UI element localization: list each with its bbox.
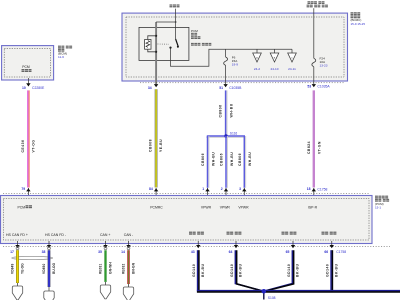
wire CB806 WH-BU branch 2 <box>226 136 228 188</box>
ground wire GD140 pin 64 <box>235 250 263 291</box>
svg-text:43: 43 <box>191 250 195 254</box>
relay mechanical link (dotted) <box>158 43 170 45</box>
svg-text:GD140: GD140 <box>326 264 330 277</box>
svg-text:3: 3 <box>239 187 241 191</box>
wire from hot feed into box to relay switch <box>175 9 177 39</box>
splice S116 node <box>224 134 227 137</box>
wire VD850 BU-OG (blue) <box>48 250 51 287</box>
svg-text:CB806: CB806 <box>220 153 224 166</box>
svg-text:VT-GN: VT-GN <box>318 141 322 154</box>
wire CE436 VT-OG (pink) <box>27 90 29 187</box>
ground wire GD140 pin 66 <box>330 250 332 291</box>
PCM entry pin 79 <box>27 188 29 198</box>
svg-text:S108: S108 <box>268 296 276 300</box>
wire from starter-run feed down to fuse F24 <box>313 8 315 58</box>
svg-text:WH-BU: WH-BU <box>248 152 252 166</box>
connector dash row below BJB <box>140 82 344 84</box>
svg-text:PCMRC: PCMRC <box>150 205 163 209</box>
hot-at-all-times power label <box>170 4 173 7</box>
wire CB008 YE-BU (dark yellow) <box>155 89 158 187</box>
connector terminal of VD849 <box>17 283 19 286</box>
off-page connector 24-2 <box>256 49 258 53</box>
svg-text:YE-OG: YE-OG <box>21 263 25 274</box>
PCM module box <box>1 196 373 244</box>
svg-text:24-2: 24-2 <box>254 67 260 71</box>
svg-text:13-23: 13-23 <box>320 63 328 67</box>
wire CB824 VT-GN (violet) <box>313 90 315 187</box>
svg-text:HS CAN FD +: HS CAN FD + <box>6 233 28 237</box>
splice S108 node <box>262 289 267 294</box>
twisted pair ellipse <box>12 256 53 259</box>
starter-run power label <box>308 1 311 4</box>
BCM module box (PCM relay inside BCM) <box>2 46 54 80</box>
svg-text:C2280E: C2280E <box>32 86 45 90</box>
svg-text:YE-BU: YE-BU <box>159 139 163 152</box>
relay switch pivot <box>169 47 171 49</box>
svg-text:17: 17 <box>10 250 14 254</box>
svg-text:24-11: 24-11 <box>288 67 296 71</box>
svg-text:11-6: 11-6 <box>58 55 64 59</box>
off-page connector 24-10 <box>274 49 276 53</box>
PCM entry pin 2 <box>225 188 227 198</box>
wire RE031 GN-WH (green) <box>104 250 107 282</box>
PCM bottom exit pin 65 <box>292 241 294 245</box>
svg-text:C1758: C1758 <box>336 250 346 254</box>
fuse F24 <box>312 58 316 66</box>
ground wire GD140 pin 65 <box>264 250 293 291</box>
svg-text:35: 35 <box>98 250 102 254</box>
ground wire GD140 pin 43 <box>197 250 199 291</box>
BJB exit pin 34 <box>154 84 158 87</box>
svg-text:CB806: CB806 <box>201 153 205 166</box>
BJB exit pin 53 <box>312 84 316 87</box>
PCM power relay box <box>139 27 189 60</box>
svg-text:14: 14 <box>121 250 125 254</box>
svg-text:CB806: CB806 <box>219 104 223 117</box>
svg-text:10: 10 <box>22 86 26 90</box>
relay coil <box>155 35 157 37</box>
BJB inner dashed border <box>126 17 344 77</box>
svg-text:RE032: RE032 <box>121 264 125 274</box>
svg-text:GD140: GD140 <box>287 264 291 277</box>
PCM bottom exit pin 17 <box>17 241 19 245</box>
svg-text:CAN +: CAN + <box>100 233 110 237</box>
svg-text:64: 64 <box>229 250 233 254</box>
connector terminal of RE031 <box>105 282 107 285</box>
relay switch blade <box>176 39 179 46</box>
svg-text:C1035B: C1035B <box>229 86 242 90</box>
svg-text:38: 38 <box>42 250 46 254</box>
svg-text:C1758: C1758 <box>317 187 327 191</box>
svg-text:VD849: VD849 <box>10 264 14 274</box>
svg-text:BU-OG: BU-OG <box>52 262 56 274</box>
svg-text:53: 53 <box>307 85 311 89</box>
svg-text:34: 34 <box>148 86 152 90</box>
svg-text:WH-BU: WH-BU <box>229 103 233 117</box>
PCM bottom exit pin 64 <box>235 241 237 245</box>
svg-text:CE436: CE436 <box>21 140 25 153</box>
off-page connector 24-11 <box>291 49 293 53</box>
svg-text:PCM: PCM <box>22 65 30 69</box>
svg-text:HS CAN FD -: HS CAN FD - <box>45 233 67 237</box>
PCM inner dashed border <box>3 198 369 240</box>
svg-text:PCM: PCM <box>191 29 198 33</box>
battery junction box (BJB) <box>122 13 348 81</box>
svg-text:S116: S116 <box>230 132 238 136</box>
power ground labels <box>189 232 192 235</box>
svg-text:15-9 15-25: 15-9 15-25 <box>351 22 366 26</box>
PCM entry pin 1 <box>207 188 209 198</box>
BJB exit pin 51 <box>223 84 227 87</box>
svg-text:BK-BU: BK-BU <box>201 264 205 277</box>
wire CB806 WH-BU from pin 51 to S116 <box>226 90 228 136</box>
svg-text:GD140: GD140 <box>230 264 234 277</box>
fuse F6 <box>225 49 227 57</box>
svg-text:18: 18 <box>307 187 311 191</box>
splice S108 stub <box>263 291 265 299</box>
wire CB806 WH-BU branch 3 <box>245 136 247 188</box>
svg-text:VD850: VD850 <box>42 264 46 274</box>
BJB side label <box>351 12 354 15</box>
wire VD849 YE-OG (yellow) <box>16 250 19 283</box>
PCM connector dash row bottom <box>3 246 390 248</box>
svg-text:WH-BU: WH-BU <box>211 152 215 166</box>
relay output routing wire <box>171 49 293 67</box>
svg-text:66: 66 <box>324 250 328 254</box>
branch from hot feed to coil wire <box>156 21 176 23</box>
svg-text:BN-GN: BN-GN <box>132 262 136 274</box>
BCM exit wire pin 10 <box>27 78 29 86</box>
svg-text:C1035A: C1035A <box>317 85 330 89</box>
relay through wire (gray) <box>155 22 157 84</box>
svg-text:GD140: GD140 <box>192 264 196 277</box>
PCM entry pin 18 <box>313 188 315 198</box>
svg-text:CB824: CB824 <box>307 141 311 154</box>
svg-text:51: 51 <box>219 86 223 90</box>
svg-text:ISP-R: ISP-R <box>308 205 318 209</box>
svg-text:CB008: CB008 <box>148 139 152 152</box>
splice S116 horizontal bar <box>206 136 245 138</box>
PCM connector dash row top <box>3 192 369 194</box>
wire RE032 BN-GN (brown) <box>127 250 130 284</box>
connector terminal of RE032 <box>128 284 130 287</box>
PCM bottom exit pin 66 <box>331 241 333 245</box>
svg-text:CAN -: CAN - <box>124 233 134 237</box>
PCM side label <box>375 196 378 199</box>
svg-text:VT-OG: VT-OG <box>31 139 35 152</box>
svg-text:BK-BU: BK-BU <box>334 264 338 277</box>
svg-text:BK-BU: BK-BU <box>296 264 300 277</box>
svg-text:84: 84 <box>149 187 153 191</box>
PCM relay dashed sub-box <box>4 48 50 77</box>
PCM bottom exit pin 43 <box>197 241 199 245</box>
svg-text:PCM: PCM <box>18 205 26 209</box>
svg-text:24-10: 24-10 <box>271 67 279 71</box>
svg-text:19-9: 19-9 <box>232 63 238 67</box>
twisted pair loop circles (CAN pair) <box>104 247 107 250</box>
PCM entry pin 84 <box>155 188 157 198</box>
svg-text:1: 1 <box>202 187 204 191</box>
PCM bottom exit pin 35 <box>105 241 107 245</box>
svg-text:GN-WH: GN-WH <box>109 262 113 274</box>
svg-text:BK-BU: BK-BU <box>239 264 243 277</box>
twisted pair loop circles (HS CAN FD pair) <box>16 247 19 250</box>
svg-text:2: 2 <box>221 187 223 191</box>
svg-text:WH-BU: WH-BU <box>230 152 234 166</box>
ground bus wire <box>197 290 400 292</box>
svg-text:VPWR: VPWR <box>220 205 231 209</box>
wire CB806 WH-BU branch 1 <box>208 136 210 188</box>
svg-text:79: 79 <box>21 187 25 191</box>
PCM bottom exit pin 38 <box>48 241 50 245</box>
PCM entry pin 3 <box>243 188 245 198</box>
BCM side label <box>58 46 61 49</box>
svg-text:VPWR: VPWR <box>201 205 212 209</box>
svg-text:65: 65 <box>286 250 290 254</box>
svg-text:CB806: CB806 <box>238 153 242 166</box>
svg-text:RE031: RE031 <box>98 264 102 274</box>
connector terminal of VD850 <box>48 287 50 291</box>
svg-text:VPWR: VPWR <box>238 205 249 209</box>
PCM bottom exit pin 14 <box>128 241 130 245</box>
svg-text:15-1: 15-1 <box>375 205 381 209</box>
